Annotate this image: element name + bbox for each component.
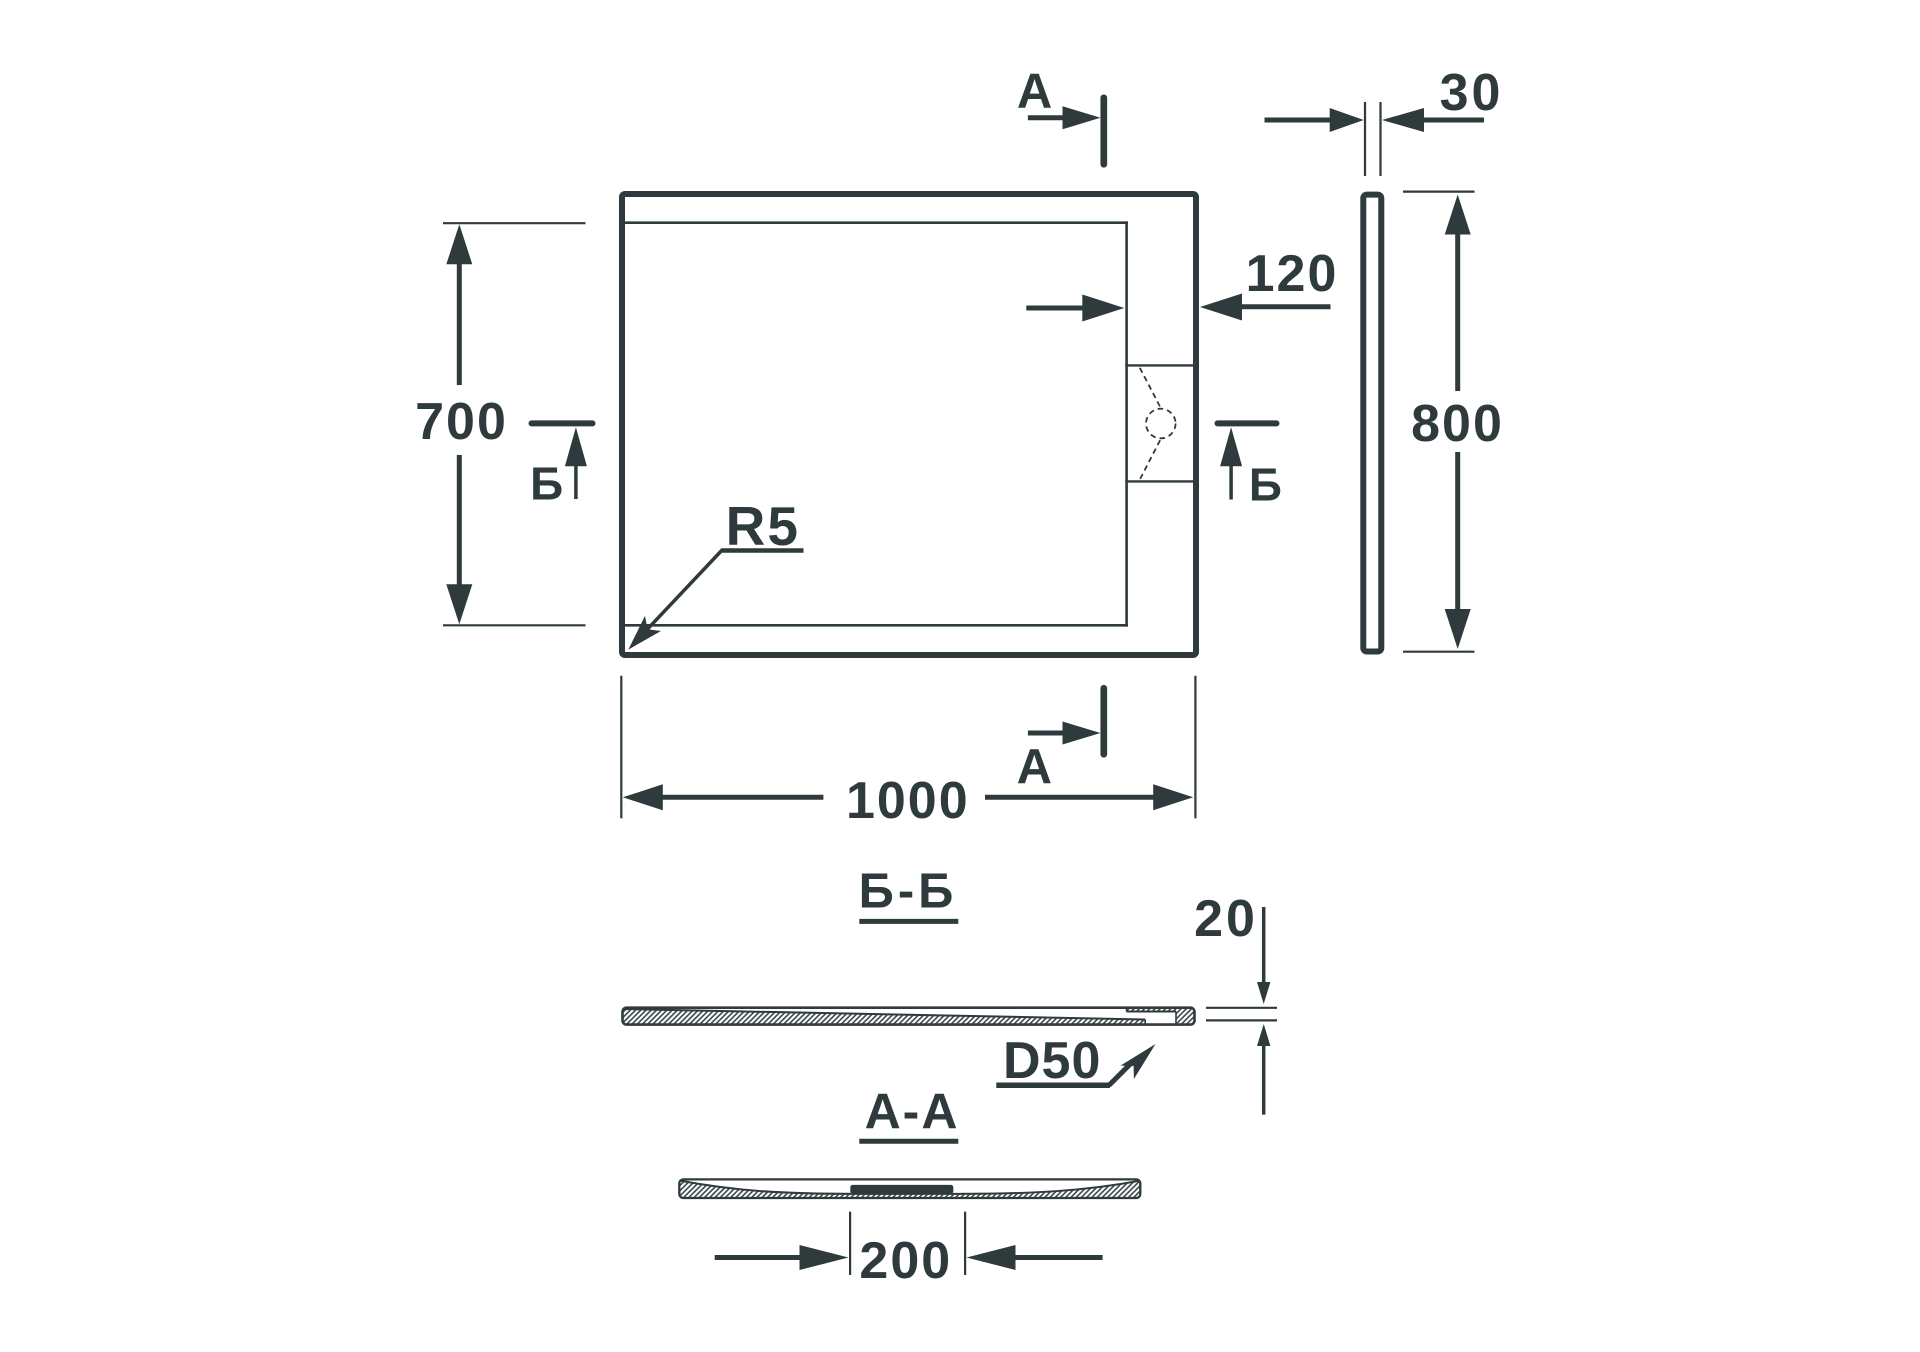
svg-text:Б-Б: Б-Б (859, 865, 958, 919)
svg-text:200: 200 (859, 1232, 952, 1290)
svg-text:R5: R5 (726, 495, 800, 557)
svg-text:D50: D50 (1003, 1032, 1101, 1090)
svg-text:Б: Б (1249, 459, 1282, 511)
svg-text:30: 30 (1440, 64, 1504, 122)
svg-text:700: 700 (415, 393, 508, 451)
svg-text:A-A: A-A (865, 1084, 960, 1140)
svg-text:1000: 1000 (846, 772, 970, 830)
svg-text:800: 800 (1411, 395, 1504, 453)
svg-text:120: 120 (1246, 245, 1339, 303)
svg-text:A: A (1017, 65, 1052, 119)
svg-text:A: A (1017, 740, 1052, 794)
svg-text:Б: Б (530, 458, 563, 510)
svg-text:20: 20 (1194, 890, 1258, 948)
